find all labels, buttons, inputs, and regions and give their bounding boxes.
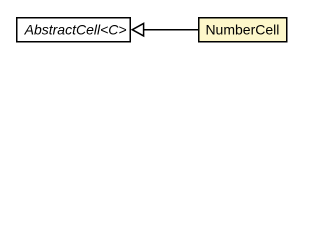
svg-text:NumberCell: NumberCell [205,22,279,38]
svg-text:AbstractCell<C>: AbstractCell<C> [24,22,127,38]
